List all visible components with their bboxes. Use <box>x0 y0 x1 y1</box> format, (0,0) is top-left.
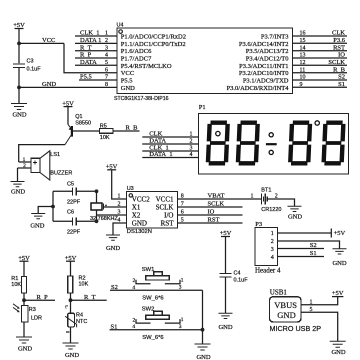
svg-text:3: 3 <box>190 146 193 152</box>
svg-text:3: 3 <box>118 210 121 216</box>
seven-segment digit 4 <box>324 123 344 164</box>
svg-text:8: 8 <box>105 82 108 88</box>
wire U3 pin8 VBAT <box>178 198 262 200</box>
svg-text:VCC: VCC <box>42 37 55 44</box>
capacitor C6 <box>53 217 97 225</box>
node R P junction <box>22 298 26 302</box>
power +5V (Q1) <box>62 100 74 107</box>
wire buzzer pin2 <box>18 167 32 169</box>
power +5V (U3) <box>106 163 118 170</box>
svg-text:VCC2: VCC2 <box>132 195 150 203</box>
wire switches common to ground <box>202 290 204 344</box>
wire U3 pin5 RST <box>178 222 243 224</box>
svg-text:VBAT: VBAT <box>208 193 225 200</box>
svg-text:C3: C3 <box>27 59 34 65</box>
wire U3 pin2 X1 <box>104 206 127 208</box>
svg-text:DATA 1: DATA 1 <box>149 151 172 158</box>
capacitor C4 <box>220 273 232 313</box>
svg-text:GND: GND <box>288 214 302 221</box>
power +5V (C4) <box>220 230 232 237</box>
svg-text:S8550: S8550 <box>75 121 91 127</box>
svg-text:VCC: VCC <box>121 70 134 77</box>
wire display pin1 <box>142 136 198 138</box>
svg-text:SW_6*6: SW_6*6 <box>142 335 163 341</box>
svg-text:NTC: NTC <box>76 319 87 325</box>
svg-text:0.1uF: 0.1uF <box>27 66 42 72</box>
svg-text:VBUS: VBUS <box>274 300 297 310</box>
ground (U3) <box>106 235 120 252</box>
svg-text:BT1: BT1 <box>261 187 271 193</box>
svg-text:2: 2 <box>271 239 274 245</box>
svg-text:10K: 10K <box>11 282 21 288</box>
wire USB pin5 to ground <box>301 312 338 341</box>
svg-text:DATA: DATA <box>80 59 97 66</box>
node crystal top junction <box>95 189 99 193</box>
wire U4 pin3 stub <box>75 50 117 52</box>
svg-text:GND: GND <box>218 324 232 331</box>
svg-text:R T: R T <box>84 294 96 301</box>
capacitor C5 <box>53 187 97 195</box>
wire U4 pin1 stub <box>75 35 117 37</box>
wire R T net <box>71 299 107 301</box>
svg-text:IO: IO <box>338 52 345 59</box>
svg-text:SCLK: SCLK <box>208 201 225 208</box>
ground (C4) <box>218 313 232 331</box>
svg-text:DATA: DATA <box>149 138 166 145</box>
svg-text:RST: RST <box>333 44 345 51</box>
wire VCC to U4 pin6 <box>64 43 117 72</box>
resistor R2 <box>68 276 73 313</box>
wire U4 pin4 stub <box>75 57 117 59</box>
svg-text:2: 2 <box>23 163 26 169</box>
svg-text:GND: GND <box>65 352 79 359</box>
svg-text:2: 2 <box>118 202 121 208</box>
transistor Q1 <box>65 125 72 145</box>
wire top net to crystal <box>96 191 98 203</box>
svg-text:MICRO USB 2P: MICRO USB 2P <box>270 324 322 333</box>
svg-text:1: 1 <box>181 278 184 284</box>
svg-text:+5V: +5V <box>334 230 346 237</box>
pin names U3 left <box>132 195 150 227</box>
wire display pin3 <box>142 150 198 152</box>
battery BT1 <box>262 194 268 205</box>
RTC U3 body <box>127 192 178 229</box>
svg-text:USB1: USB1 <box>270 289 288 297</box>
svg-text:P5.5: P5.5 <box>121 78 133 85</box>
power +5V (USB) <box>332 290 344 297</box>
svg-text:P3.6: P3.6 <box>333 37 345 44</box>
pin names U4 left <box>121 34 186 92</box>
pin names U3 right <box>156 195 175 227</box>
svg-text:Q1: Q1 <box>75 114 82 120</box>
svg-text:R T: R T <box>80 44 92 51</box>
svg-text:P1.6/ADC6: P1.6/ADC6 <box>121 48 152 55</box>
wire +5V to R2 <box>70 261 72 276</box>
wire emitter rail <box>67 107 69 125</box>
svg-text:GND: GND <box>332 260 346 267</box>
svg-text:GND: GND <box>331 349 345 356</box>
svg-text:STC8G1K17-38I-DIP16: STC8G1K17-38I-DIP16 <box>114 96 169 102</box>
pin numbers U4 right 16-9 <box>300 31 306 88</box>
svg-text:SW_6*6: SW_6*6 <box>142 295 163 301</box>
resistor R1 <box>22 277 27 306</box>
svg-text:S2: S2 <box>111 284 118 291</box>
svg-text:R B: R B <box>333 66 346 73</box>
svg-text:R P: R P <box>80 52 92 59</box>
svg-text:DS1302N: DS1302N <box>127 229 152 235</box>
seven-segment digit 3 <box>290 123 310 164</box>
svg-text:C6: C6 <box>67 210 74 216</box>
connector P3 body <box>255 228 278 266</box>
svg-text:4: 4 <box>271 255 274 261</box>
svg-text:1: 1 <box>310 300 313 306</box>
wire S2 net <box>110 289 203 291</box>
svg-text:7: 7 <box>181 202 184 208</box>
svg-text:IO: IO <box>208 209 215 216</box>
svg-text:GND: GND <box>30 222 44 229</box>
svg-text:GND: GND <box>132 219 147 227</box>
wire +5V rail down <box>18 29 20 64</box>
node VCC junction <box>17 42 21 46</box>
svg-text:0.1uF: 0.1uF <box>234 278 249 284</box>
svg-text:CLK: CLK <box>332 30 345 37</box>
svg-text:CLK 1: CLK 1 <box>80 30 100 37</box>
wire left cap rail <box>52 191 54 221</box>
svg-text:C5: C5 <box>67 181 74 187</box>
ground (caps) <box>30 214 45 230</box>
buzzer LS1 body <box>31 151 50 180</box>
wire BT1 to ground <box>267 199 294 206</box>
svg-text:2: 2 <box>133 278 136 284</box>
svg-text:CR1220: CR1220 <box>261 207 281 213</box>
indicator circle digit4 <box>315 121 319 125</box>
svg-text:1: 1 <box>118 194 121 200</box>
svg-text:P3.7/INT3: P3.7/INT3 <box>261 34 289 41</box>
svg-text:S1: S1 <box>310 250 317 257</box>
wires U4 right stubs pins 16-9 <box>293 36 348 87</box>
node S1 junction <box>201 328 205 332</box>
wire R P net <box>24 299 55 301</box>
wire to ground <box>18 87 20 103</box>
wire U3 pin7 SCLK <box>178 206 243 208</box>
svg-text:SW2: SW2 <box>142 307 155 313</box>
power +5V (R1) <box>18 255 30 262</box>
switch SW2 <box>136 311 180 323</box>
wire U3 pin4 GND <box>113 223 127 235</box>
node GND junction <box>17 86 21 90</box>
switch SW1 <box>136 272 180 284</box>
svg-text:LS1: LS1 <box>50 152 60 158</box>
svg-text:P1.1/ADC1/CCP0/TxD2: P1.1/ADC1/CCP0/TxD2 <box>121 41 186 48</box>
svg-text:BUZZER: BUZZER <box>50 170 72 176</box>
svg-text:P3: P3 <box>255 221 262 228</box>
ground (switches) <box>195 344 211 360</box>
wire collector to buzzer <box>19 145 65 162</box>
pin 1 mark U3 <box>129 194 132 197</box>
svg-text:10K: 10K <box>79 281 89 287</box>
wire P3 pin2 to ground <box>278 241 340 249</box>
svg-text:6: 6 <box>181 210 184 216</box>
svg-text:X1: X1 <box>132 203 141 211</box>
svg-text:1: 1 <box>23 157 26 163</box>
wire U4 pin5 stub <box>75 64 117 66</box>
svg-text:22PF: 22PF <box>67 200 81 206</box>
display P1 box <box>199 114 349 175</box>
svg-text:GND: GND <box>11 188 25 195</box>
svg-text:R3: R3 <box>29 307 36 313</box>
svg-text:Header 4: Header 4 <box>255 266 281 274</box>
wire U3 pin3 X2 <box>97 214 127 216</box>
svg-text:U4: U4 <box>117 23 124 29</box>
wire crystal bottom <box>96 210 98 221</box>
svg-text:GND: GND <box>196 354 210 360</box>
svg-text:8: 8 <box>181 194 184 200</box>
wire P3 pin3 S2 <box>278 248 325 250</box>
svg-text:4: 4 <box>190 152 193 158</box>
pin numbers U4 left 1-8 <box>105 31 108 88</box>
pin names U4 right <box>227 34 290 92</box>
wire display pin2 <box>142 143 198 145</box>
svg-text:P5.4/RST/MCLKO: P5.4/RST/MCLKO <box>121 63 172 70</box>
svg-text:GND: GND <box>121 85 135 92</box>
svg-text:P3.2/ADC10/INT0: P3.2/ADC10/INT0 <box>239 70 289 77</box>
svg-text:R P: R P <box>37 294 49 301</box>
op-amp U4 body <box>117 28 293 94</box>
svg-text:4: 4 <box>118 218 121 224</box>
svg-text:10K: 10K <box>100 135 110 141</box>
svg-text:3: 3 <box>271 247 274 253</box>
svg-text:3: 3 <box>179 285 182 291</box>
wire display pin4 <box>142 157 198 159</box>
svg-text:C4: C4 <box>234 271 241 277</box>
wire P3 pin4 S1 <box>278 256 325 258</box>
svg-text:2: 2 <box>190 139 193 145</box>
svg-text:SCLK: SCLK <box>156 203 174 211</box>
seven-segment digit 2 <box>238 123 258 164</box>
svg-text:SCLK: SCLK <box>328 59 345 66</box>
svg-text:P5.5: P5.5 <box>80 74 92 81</box>
power +5V (R2) <box>65 255 77 262</box>
svg-text:GND: GND <box>12 112 26 119</box>
ground (R3) <box>16 337 32 353</box>
wire U4 pin2 stub <box>75 42 117 44</box>
ground (R4) <box>63 343 80 359</box>
svg-text:P3.6/ADC14/INT2: P3.6/ADC14/INT2 <box>239 41 289 48</box>
wire USB pin1 to +5V <box>301 297 338 305</box>
svg-text:GND: GND <box>277 310 295 320</box>
svg-text:GND: GND <box>42 81 56 88</box>
svg-text:GND: GND <box>106 245 120 252</box>
svg-text:1: 1 <box>181 317 184 323</box>
svg-text:S1: S1 <box>338 81 345 88</box>
svg-text:P3.0/ADC8/RXD/INT4: P3.0/ADC8/RXD/INT4 <box>227 85 290 92</box>
svg-text:S1: S1 <box>111 323 118 330</box>
svg-text:GND: GND <box>18 346 32 353</box>
svg-text:R4: R4 <box>76 313 83 319</box>
svg-text:3: 3 <box>179 324 182 330</box>
svg-text:P1: P1 <box>199 104 206 111</box>
wire +5V to U3 pin1 <box>112 170 127 199</box>
svg-text:P3.1/ADC9/TXD: P3.1/ADC9/TXD <box>243 78 289 85</box>
svg-text:DATA 1: DATA 1 <box>80 37 101 44</box>
svg-text:P3.3/ADC11/INT1: P3.3/ADC11/INT1 <box>239 63 288 70</box>
power +5V (P3) <box>331 229 345 238</box>
colon upper dot <box>269 133 273 137</box>
colon bar <box>266 143 277 145</box>
svg-text:32.768KHZ: 32.768KHZ <box>90 216 118 222</box>
svg-text:P1.0/ADC0/CCP1/RxD2: P1.0/ADC0/CCP1/RxD2 <box>121 34 186 41</box>
svg-text:U3: U3 <box>127 186 134 192</box>
wire pin2 to ground <box>17 168 19 182</box>
wire U4 pin7 stub <box>79 79 117 81</box>
svg-text:VCC1: VCC1 <box>156 195 174 203</box>
svg-text:I/O: I/O <box>164 211 173 219</box>
thermistor R4 <box>65 305 76 343</box>
wire GND to U4 pin 8 <box>19 86 117 88</box>
photoresistor R3 <box>13 304 28 337</box>
indicator circle digit1 <box>216 131 220 135</box>
ground (USB) <box>330 341 346 356</box>
svg-text:P3.4/ADC12/T0: P3.4/ADC12/T0 <box>246 56 289 63</box>
svg-text:R5: R5 <box>100 123 107 129</box>
svg-text:SW1: SW1 <box>142 267 155 273</box>
svg-text:LDR: LDR <box>31 316 42 322</box>
colon lower dot <box>269 150 273 154</box>
wire to ground (caps) <box>38 207 53 214</box>
svg-text:CLK: CLK <box>149 131 162 138</box>
wire VCC <box>19 42 64 44</box>
svg-text:RST: RST <box>208 217 220 224</box>
crystal Y1 <box>91 203 107 210</box>
capacitor C3 <box>13 64 25 87</box>
svg-text:1: 1 <box>190 132 193 138</box>
svg-text:X2: X2 <box>132 211 141 219</box>
node R T junction <box>69 298 73 302</box>
seven-segment digit 1 <box>208 123 228 164</box>
svg-text:S2: S2 <box>310 242 317 249</box>
resistor R5 <box>100 129 140 134</box>
pin numbers P3 <box>271 231 274 261</box>
svg-text:1: 1 <box>271 231 274 237</box>
power +5V (top left) <box>13 22 25 29</box>
wire U3 pin6 IO <box>178 214 243 216</box>
wire S1 net <box>110 329 203 331</box>
wire buzzer pin1 <box>19 161 31 163</box>
svg-text:2: 2 <box>133 317 136 323</box>
wire +5V to C4 <box>225 237 227 274</box>
ground (BT1) <box>288 206 303 220</box>
wire +5V to R1 <box>23 261 25 276</box>
svg-text:P3.5/ADC13/T2: P3.5/ADC13/T2 <box>246 48 289 55</box>
wire P3 pin1 to +5V <box>278 232 332 234</box>
svg-text:R B: R B <box>126 125 139 132</box>
pin 1 mark U4 <box>119 30 123 34</box>
svg-text:1: 1 <box>251 194 254 200</box>
wire base to R5 <box>73 130 100 132</box>
svg-text:P1.7/ADC7: P1.7/ADC7 <box>121 56 152 63</box>
node cap-gnd junction <box>51 205 55 209</box>
svg-text:t°: t° <box>65 305 68 310</box>
ground (top left) <box>11 104 27 119</box>
svg-text:22PF: 22PF <box>67 229 81 235</box>
svg-text:5: 5 <box>310 307 313 313</box>
node crystal bottom junction <box>95 219 99 223</box>
ground (buzzer) <box>11 182 26 196</box>
svg-text:+5V: +5V <box>332 290 344 297</box>
svg-text:RST: RST <box>161 219 175 227</box>
svg-text:5: 5 <box>181 218 184 224</box>
connector USB1 body <box>270 297 302 322</box>
svg-text:S2: S2 <box>338 74 345 81</box>
ground (P3) <box>332 249 346 267</box>
